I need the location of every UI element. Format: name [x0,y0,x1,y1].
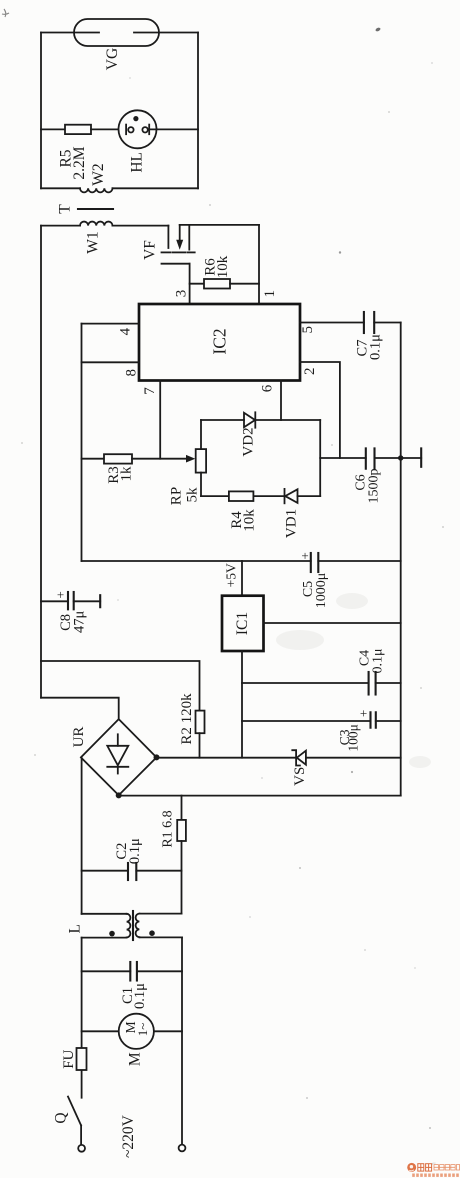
svg-text:IC1: IC1 [234,612,251,635]
wire bridge left corner down [81,757,83,913]
choke L right winding [136,914,140,938]
svg-text:47μ: 47μ [72,611,88,634]
diode VD1 [285,489,298,503]
svg-text:0.1μ: 0.1μ [127,838,143,864]
capacitor C6 [366,448,375,468]
wire lamp loop top-left lead [41,32,74,34]
wire right rail down [181,937,183,1144]
wire VD1 to right edge [298,495,321,497]
choke L left winding [127,914,131,938]
svg-text:1000μ: 1000μ [314,573,329,609]
switch Q [68,1097,81,1145]
label C2 0.1u [114,838,143,864]
regulator IC1 body [222,596,264,651]
wire IC2 pin6 [280,381,282,421]
watermark logo [407,1163,416,1172]
wire C2 line left [82,870,128,872]
wire motor line right [154,1030,182,1032]
wire VF drain to pin1 line [180,224,259,226]
svg-text:M: M [126,1052,143,1066]
wire C6 line left [320,457,366,459]
label C3 100u [337,724,361,752]
label C6 1500p [354,469,382,504]
scan specks [375,27,381,32]
wire choke top-right lead [139,913,181,915]
label R6 10k [203,255,232,278]
node bridge right corner [154,754,160,760]
wire IC2 pin5 [300,322,364,324]
svg-text:T: T [57,204,74,214]
wire R5 to HL [91,128,126,130]
wire R3 left lead [82,458,105,460]
wire R4 to VD1 [253,495,284,497]
zener diode VS [292,750,306,765]
svg-text:FU: FU [61,1049,77,1068]
capacitor C1 [130,962,137,981]
svg-text:VG: VG [104,48,121,70]
svg-text:0.1μ: 0.1μ [132,983,148,1009]
capacitor C3 [371,712,376,727]
svg-text:VF: VF [142,240,159,260]
svg-text:VD2: VD2 [241,427,257,456]
resistor R4 [229,491,254,501]
winding W2 [80,188,112,192]
wire right bus [400,323,402,796]
svg-text:RP: RP [169,487,185,505]
wire +5V lead [241,561,243,596]
node polarity dot right [149,930,155,936]
wire miniloop top edge right [255,419,320,421]
transformer T core [78,208,113,210]
svg-text:R1 6.8: R1 6.8 [161,810,176,847]
wire lamp loop bottom-right [113,187,199,189]
svg-text:0.1μ: 0.1μ [368,334,384,360]
wire C7 to right bus [374,322,401,324]
wire left control bus [81,324,83,561]
svg-text:L: L [66,924,83,933]
svg-text:W1: W1 [85,231,102,253]
motor M [119,1014,154,1049]
svg-text:100μ: 100μ [346,724,361,752]
potentiometer RP [196,420,206,496]
wire C3 line left [242,720,371,722]
svg-text:VD1: VD1 [284,509,300,538]
wire IC1 bottom lead [241,651,243,758]
svg-text:5k: 5k [185,487,201,503]
svg-text:+: + [360,706,367,721]
node bridge bottom corner [116,792,122,798]
wire gate lead pin3 [189,264,191,304]
watermark small text row 1 [433,1163,460,1170]
resistor R1 [177,820,186,841]
ground stub terminal [401,448,422,466]
label RP 5k [169,487,201,505]
svg-text:1: 1 [262,290,278,298]
label C4 0.1u [358,648,386,673]
fuse FU [77,1048,87,1070]
svg-text:2: 2 [302,368,318,376]
wire C8 right lead [74,600,101,602]
scan mark top-left [2,9,9,17]
transistor VF [162,225,195,264]
svg-text:1k: 1k [119,466,135,482]
resistor R2 [196,711,205,734]
RP wiper arrow [186,455,195,463]
svg-text:IC2: IC2 [210,328,230,354]
wire lamp loop left edge [40,33,42,189]
watermark bottom text row [412,1174,459,1177]
svg-text:10k: 10k [242,509,258,532]
label C8 47u [58,611,88,634]
wire bridge bottom line [119,795,401,797]
label R5 2.2M [58,146,89,179]
wire lamp loop bottom-left [41,187,80,189]
wire C1 line right [137,970,182,972]
wire C8 left lead [41,600,68,602]
wire C3 to right bus [376,720,401,722]
svg-text:+: + [301,548,308,563]
svg-text:+: + [57,587,64,602]
label R3 1k [106,466,135,484]
ground terminal C8 [99,595,101,607]
wire C1 line left [82,970,131,972]
wire VS to right bus [306,757,401,759]
watermark main text [418,1164,432,1171]
capacitor C8 [68,592,74,609]
svg-text:5: 5 [300,326,316,334]
wire R6 left lead [190,283,204,285]
fluorescent tube VG [74,19,159,46]
svg-text:1~: 1~ [135,1023,150,1037]
svg-text:3: 3 [174,290,190,298]
svg-text:+5V: +5V [223,563,238,587]
resistor R3 [104,454,132,463]
wire VS line left [157,757,297,759]
label C5 1000u [301,573,329,609]
wire R3 to RP wiper [132,458,187,460]
wire IC2 pin7 [159,381,161,459]
wire R1 bottom lead [181,841,183,914]
diode VD2 [244,412,255,427]
wire left rail down [81,938,83,1098]
wire R1 top lead [181,796,183,820]
wire left bus [40,226,42,698]
wire control bus right part [318,560,400,562]
svg-text:Q: Q [53,1112,70,1123]
label R4 10k [229,509,258,532]
terminal left [78,1145,85,1152]
wire C4 to right bus [376,682,401,684]
svg-text:2.2M: 2.2M [71,146,88,179]
wire R2 bottom lead [199,733,201,758]
wire IC2 pin4 [82,323,140,325]
svg-text:10k: 10k [215,255,231,278]
svg-text:1500p: 1500p [367,469,382,504]
svg-text:VS: VS [292,767,308,786]
wire IC2 pin8 [82,361,140,363]
capacitor C4 [369,672,376,695]
wire pin1 lead [258,225,260,304]
wire lamp loop right edge [197,33,199,189]
label C1 0.1u [120,983,148,1009]
wire choke bottom-left lead [82,937,127,939]
capacitor C7 [364,312,374,333]
wire control bus left part [82,560,311,562]
node polarity dot left [109,931,115,937]
bridge rectifier UR [81,719,157,795]
wire choke top-left lead [82,913,127,915]
node C6-bus junction [398,455,403,460]
op-amp U1: IC2 body [139,304,300,381]
wire R2 top line [41,661,200,711]
wire W1 to VF source [113,225,169,227]
wire C6 to right bus [375,457,401,459]
svg-text:8: 8 [124,369,140,377]
svg-text:~220V: ~220V [120,1114,137,1158]
choke L core [132,911,134,940]
svg-text:7: 7 [142,387,158,395]
wire IC2 pin2 [300,362,340,458]
wire choke bottom-right lead [139,936,182,938]
label C7 0.1u [355,334,384,360]
wire left bus to bridge top [41,698,119,719]
svg-text:0.1μ: 0.1μ [370,648,385,673]
svg-text:W2: W2 [90,163,107,185]
svg-text:UR: UR [71,727,87,748]
svg-text:HL: HL [128,152,145,173]
capacitor C5 [311,553,319,572]
wire miniloop top edge left [201,419,244,421]
wire lamp loop top-right lead [159,32,198,34]
capacitor C2 [128,863,136,880]
resistor R6 [204,279,230,289]
svg-text:4: 4 [118,327,134,335]
wire inverter loop top-left [41,225,80,227]
resistor R5 [65,125,91,134]
glow starter HL [119,110,157,148]
wire IC1 right pin [264,622,401,624]
wire motor line left [82,1030,119,1032]
wire C4 line left [242,682,369,684]
winding W1 [80,222,112,226]
svg-text:R2 120k: R2 120k [179,693,195,745]
wire R6 right lead [230,283,259,285]
svg-text:6: 6 [260,384,276,392]
terminal right [179,1145,186,1152]
wire lamp mid line left [41,128,65,130]
wire HL to right edge [149,128,198,130]
wire C2 line right [136,870,181,872]
wire miniloop bottom left [201,495,229,497]
wire miniloop right edge [319,420,321,496]
